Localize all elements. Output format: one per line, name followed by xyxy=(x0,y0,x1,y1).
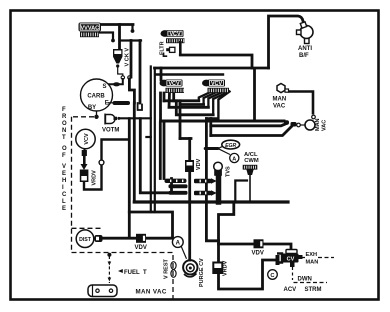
svg-text:E: E xyxy=(62,171,66,177)
wire V-right long riser x140 xyxy=(139,41,142,104)
svg-text:A: A xyxy=(232,156,236,162)
wire VVVAC lower stub xyxy=(100,33,113,40)
VRDV #1 xyxy=(80,156,104,186)
svg-text:L: L xyxy=(62,199,66,205)
wire hex to man vac circle riser xyxy=(289,92,314,115)
svg-text:VCV: VCV xyxy=(211,81,222,87)
svg-text:MAN: MAN xyxy=(273,97,287,103)
svg-text:VRDV: VRDV xyxy=(223,260,229,276)
wire x134.5 long drop to bus3 xyxy=(133,103,136,202)
VCV circle (idle vacuum valve) xyxy=(76,129,95,156)
wire vrdv2 loop xyxy=(219,260,277,289)
svg-text:F: F xyxy=(62,107,66,113)
connector bar r2 xyxy=(169,184,188,188)
wire V-left long riser x131 xyxy=(130,41,133,78)
BY stem and dot xyxy=(94,111,98,119)
svg-text:T: T xyxy=(62,135,66,141)
svg-text:V REST: V REST xyxy=(164,258,170,279)
svg-text:DIST: DIST xyxy=(79,237,92,243)
VOTM xyxy=(102,114,120,134)
svg-text:TVS: TVS xyxy=(226,166,232,177)
V REST label xyxy=(164,258,177,279)
connector bar r3 xyxy=(169,191,188,195)
wire purge drop xyxy=(206,202,218,241)
wire check valve riser xyxy=(118,25,121,50)
VCV valve 1 (left) xyxy=(160,80,185,94)
svg-text:R: R xyxy=(62,114,67,120)
VVVAC body hatched xyxy=(80,32,99,37)
wire VCV2 fan L4 xyxy=(213,93,227,115)
svg-text:MAN VAC: MAN VAC xyxy=(136,288,167,295)
VVVAC label box xyxy=(79,23,102,38)
FUEL T arrows xyxy=(107,253,147,283)
wire anti-bf riser xyxy=(269,16,304,68)
VDV box on dist line xyxy=(135,234,147,251)
wire VCV1 left vertical xyxy=(159,93,162,121)
wire zigzag V2-V3 xyxy=(164,93,213,115)
S port connector xyxy=(113,82,120,86)
wire x130.4 drop xyxy=(128,119,131,212)
wire nub under top wire xyxy=(131,25,133,30)
EXH MAN dashed labels xyxy=(301,252,334,266)
wire V1b drop to rod1 xyxy=(159,123,162,179)
svg-text:VRDV: VRDV xyxy=(92,170,98,186)
svg-text:VAC: VAC xyxy=(322,120,328,131)
PURGE CV xyxy=(199,258,205,287)
E port rod xyxy=(108,101,130,105)
wire bus C y74.5 xyxy=(156,73,223,75)
svg-text:ACV: ACV xyxy=(284,287,297,293)
A/CL CWM labels xyxy=(230,152,259,164)
connector rod r4 xyxy=(194,178,217,184)
check valve V CK V xyxy=(114,48,132,80)
svg-text:A: A xyxy=(176,241,181,247)
ANTI B/F xyxy=(297,22,314,59)
wire vdv1 drop to coil xyxy=(188,139,191,261)
svg-text:CV: CV xyxy=(287,257,295,263)
wire cwm stem drop xyxy=(249,175,251,202)
svg-text:V: V xyxy=(62,164,66,170)
wire VCV2 fan L1 xyxy=(199,93,210,101)
fuel tank xyxy=(88,285,117,297)
svg-text:C: C xyxy=(62,192,67,198)
wire x156 drop xyxy=(160,68,163,80)
DWN STRM dashed labels xyxy=(284,267,328,293)
svg-text:MAN: MAN xyxy=(315,118,321,131)
svg-text:EGR: EGR xyxy=(225,143,236,149)
wire VCV2 fan L3 xyxy=(208,93,221,108)
MAN VAC circle xyxy=(284,115,328,131)
svg-text:E: E xyxy=(105,101,109,107)
svg-text:E: E xyxy=(62,206,66,212)
svg-text:FUEL T: FUEL T xyxy=(124,270,147,276)
wire VCV1 nipple2 elbow y100 xyxy=(172,93,175,101)
svg-text:FLTR: FLTR xyxy=(160,41,166,55)
circle A (on dist line) xyxy=(172,237,186,259)
svg-text:O: O xyxy=(62,146,67,152)
wire stub y137 xyxy=(146,136,150,138)
wire y104.5 xyxy=(180,103,204,106)
wire VOTM to x152 xyxy=(120,117,151,119)
svg-text:VAC: VAC xyxy=(273,104,286,110)
connector rod r5 xyxy=(194,190,217,196)
svg-text:VCV: VCV xyxy=(84,133,90,145)
VCV valve 2 (right) xyxy=(202,80,229,94)
wire y244 to acv xyxy=(219,244,292,250)
wire J hook xyxy=(138,103,142,110)
wire VCV2 fan L2 xyxy=(204,93,216,105)
wire x206.4 drop to bus3 xyxy=(205,119,208,203)
svg-text:VCV: VCV xyxy=(168,81,179,87)
MAN VAC hexagon xyxy=(273,84,314,115)
wire bus1 y122-137 start link xyxy=(209,119,212,136)
rod end of bus1 xyxy=(284,120,289,125)
wire zigzag from second stub xyxy=(129,79,134,103)
svg-text:H: H xyxy=(62,178,66,184)
wire bus B y68.5 xyxy=(155,67,269,70)
svg-text:ANTI: ANTI xyxy=(298,46,312,52)
wire tvs stem xyxy=(216,176,222,202)
wire x152 drop xyxy=(150,67,152,213)
TVS xyxy=(214,162,232,177)
coil / purge spiral xyxy=(183,260,197,277)
svg-text:V CK V: V CK V xyxy=(125,48,131,67)
wire elbow under cwm xyxy=(235,181,247,203)
wire from top VCV down to busA xyxy=(179,41,182,55)
circle C xyxy=(268,270,278,280)
connector rod r1 xyxy=(165,179,187,183)
wire V2b drop to rod1 xyxy=(163,123,166,179)
svg-text:MAN: MAN xyxy=(306,260,319,266)
svg-text:VDV: VDV xyxy=(252,251,264,257)
ACV valve xyxy=(276,250,303,268)
wire VCV1 nipple1 elbow y115 xyxy=(169,93,208,108)
wire vrdv1 out loop xyxy=(84,140,128,190)
wire bus1b y125.8 xyxy=(211,124,287,126)
VDV #1 box on drop wire xyxy=(185,160,194,172)
EGR xyxy=(205,140,239,154)
svg-text:VCV: VCV xyxy=(169,32,180,38)
wire y122 long to man vac rod xyxy=(161,120,285,123)
svg-text:CARB: CARB xyxy=(87,93,105,99)
svg-text:N: N xyxy=(62,128,66,134)
wire bus A y56 xyxy=(180,55,252,68)
wire horizontal y40.5 xyxy=(120,39,142,41)
wire bus3 y201 xyxy=(134,200,288,203)
VDV #2 xyxy=(252,239,264,256)
wire x182 drop xyxy=(179,101,182,139)
wire n-shape y212 xyxy=(129,212,172,237)
VRDV #2 xyxy=(212,260,228,276)
wire H_a y100.8 xyxy=(164,99,199,102)
wire bus3 jog to VRDV2 xyxy=(219,202,234,262)
FRONT OF VEHICLE text xyxy=(62,107,67,212)
svg-text:EXH: EXH xyxy=(306,252,318,258)
svg-text:STRM: STRM xyxy=(305,287,322,293)
svg-text:O: O xyxy=(62,121,67,127)
wire S port riser xyxy=(108,79,123,84)
CWM component xyxy=(243,165,258,175)
svg-text:DWN: DWN xyxy=(298,277,312,283)
wire bus2 y137 left part xyxy=(180,137,191,140)
wire x171.5 link xyxy=(140,119,171,193)
wire dist line xyxy=(103,237,173,240)
wire VCV2 fan L5 xyxy=(206,92,229,119)
svg-text:B/F: B/F xyxy=(299,53,309,59)
dashed front-of-vehicle line xyxy=(72,117,174,299)
svg-text:PURGE CV: PURGE CV xyxy=(199,258,205,287)
DIST xyxy=(76,230,102,248)
wire VVVAC to risers xyxy=(100,23,133,26)
svg-text:BY: BY xyxy=(88,105,96,111)
svg-text:VDV: VDV xyxy=(135,245,147,251)
wire x154.3 drop xyxy=(154,68,156,212)
carburetor CARB xyxy=(81,79,113,111)
svg-text:VDV: VDV xyxy=(196,158,202,170)
svg-text:CWM: CWM xyxy=(244,158,259,164)
svg-text:VVVAC: VVVAC xyxy=(81,26,100,32)
VCV valve top (FLTR) xyxy=(160,30,185,56)
svg-text:F: F xyxy=(62,153,66,159)
svg-text:VOTM: VOTM xyxy=(102,128,119,134)
wire bus2 y137 to man vac bend xyxy=(211,127,292,136)
wire x255 drop xyxy=(253,69,256,122)
svg-text:S: S xyxy=(103,84,107,90)
